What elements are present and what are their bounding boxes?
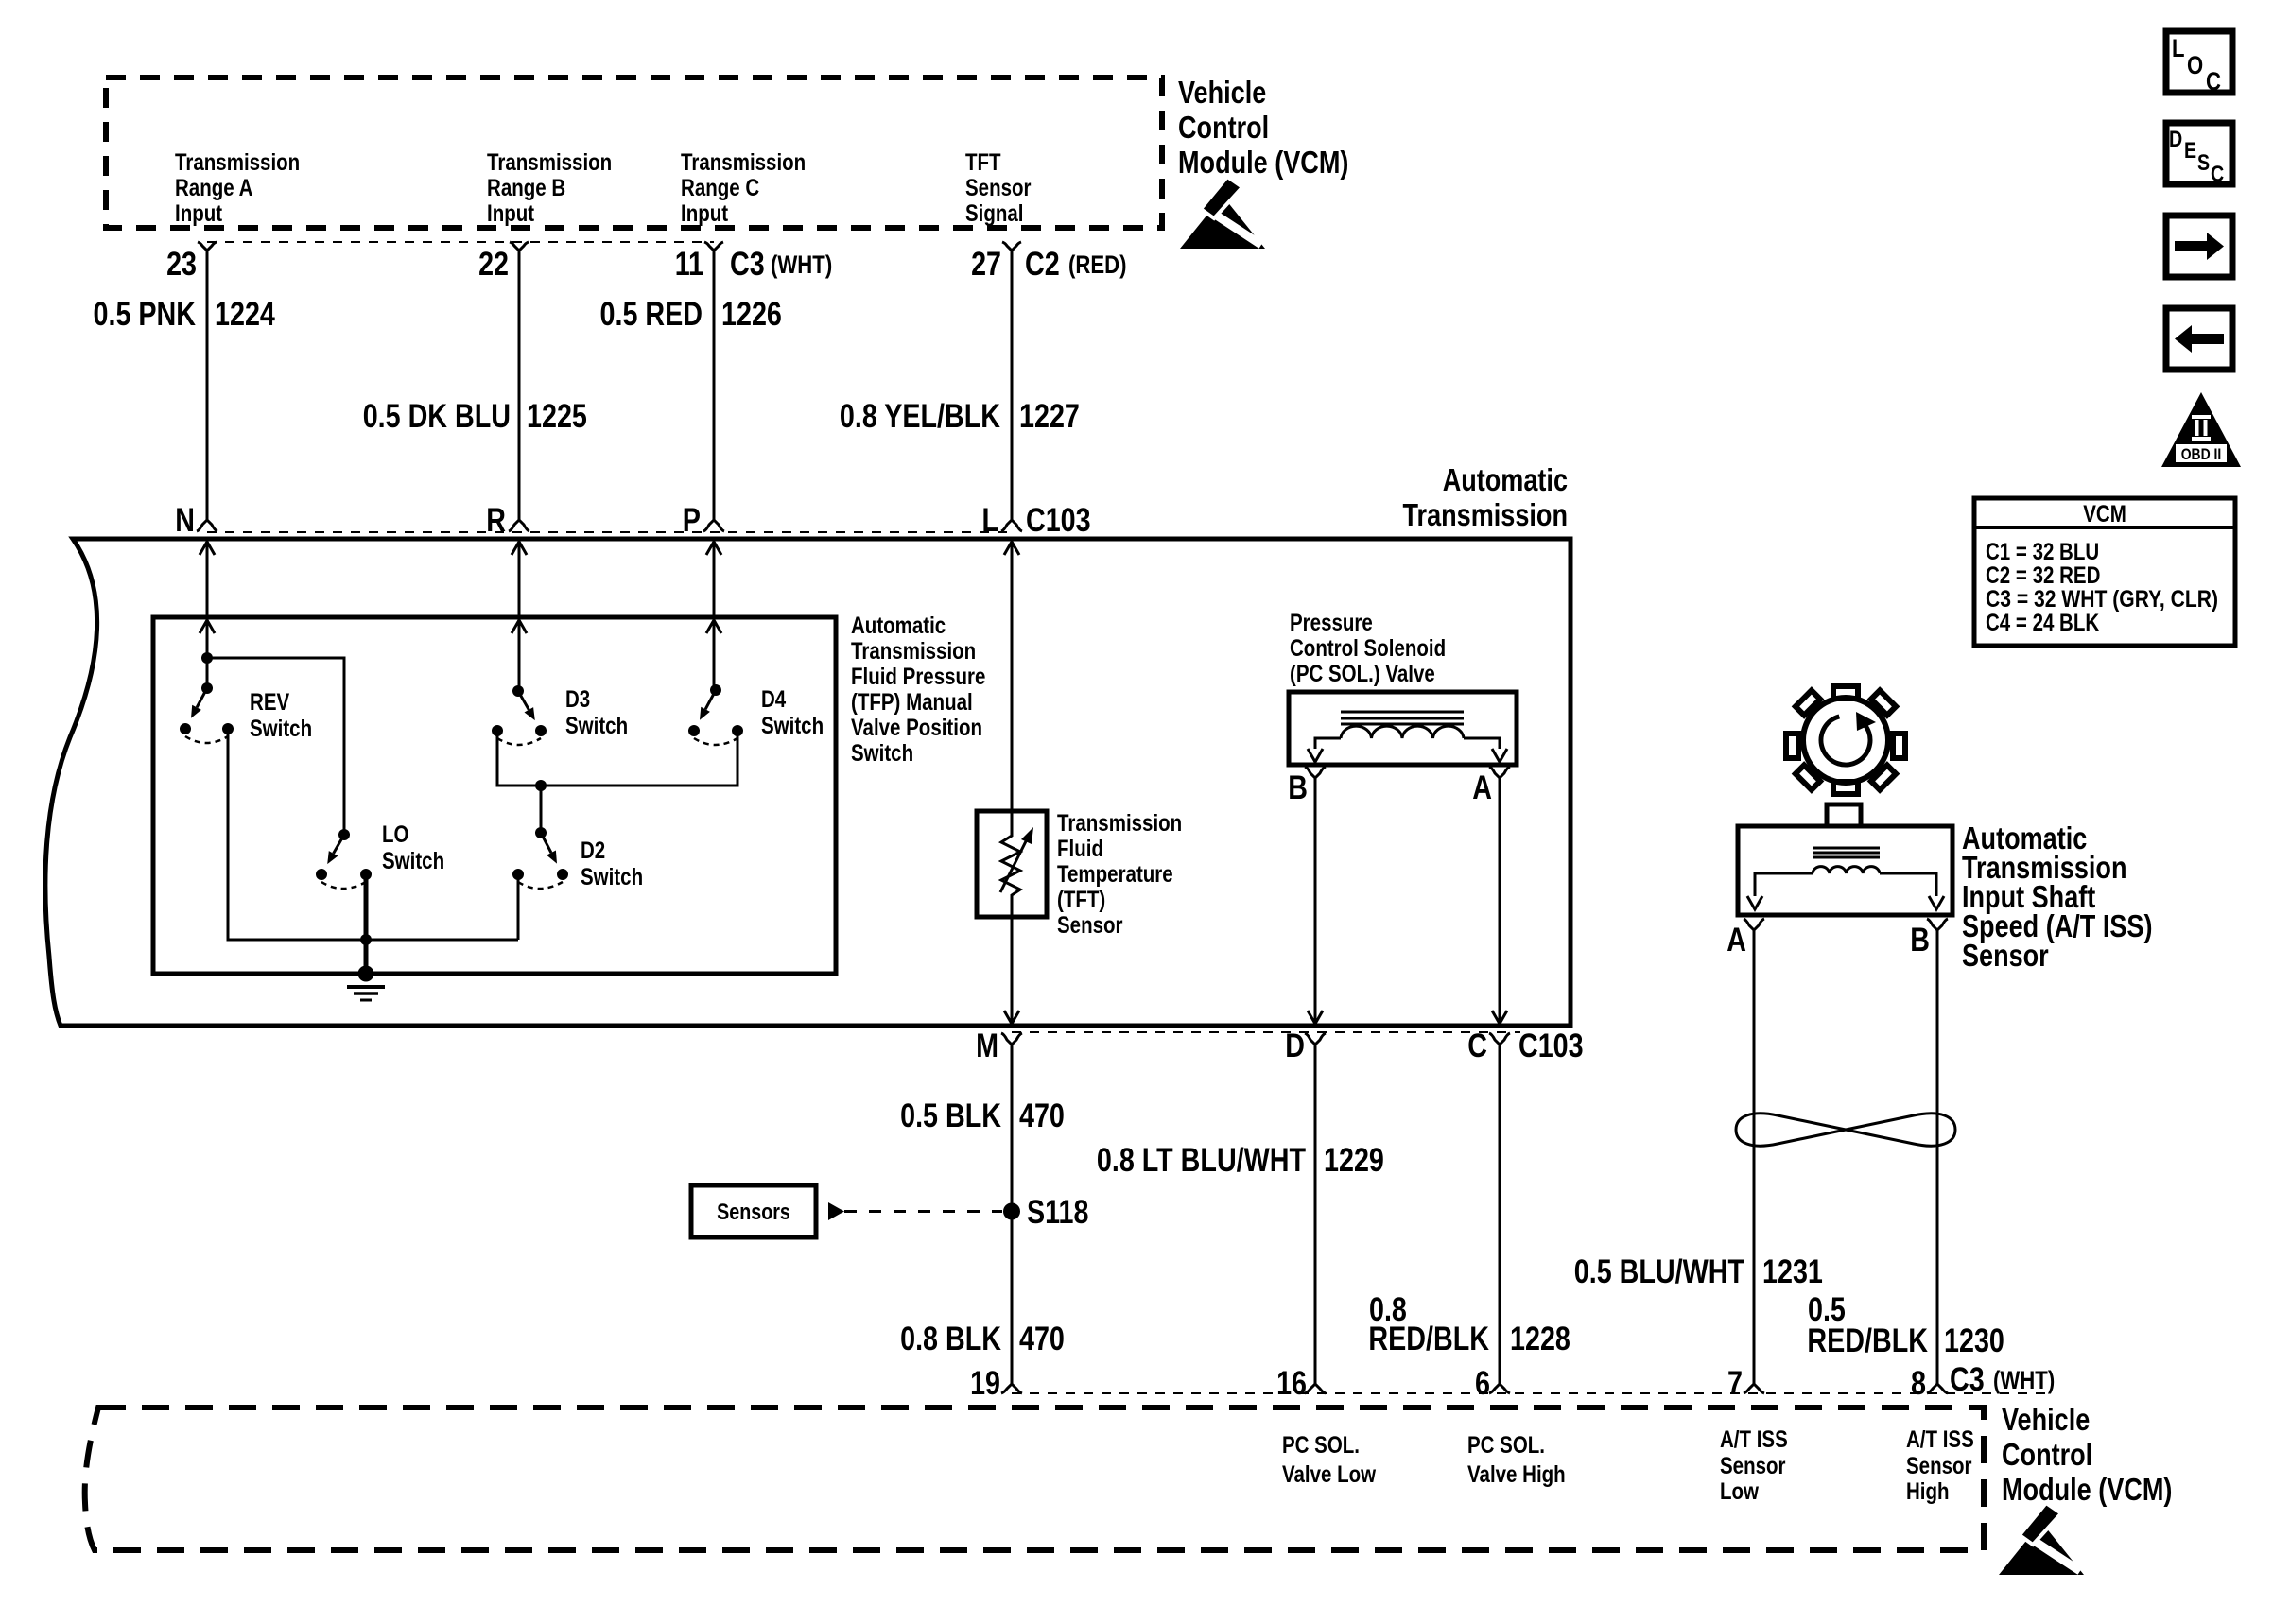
- svg-text:High: High: [1906, 1478, 1950, 1505]
- svg-text:Module (VCM): Module (VCM): [2002, 1472, 2172, 1507]
- svg-text:C2 = 32 RED: C2 = 32 RED: [1986, 562, 2100, 589]
- wire R arrow into transmission: [512, 542, 527, 555]
- svg-text:6: 6: [1475, 1365, 1490, 1402]
- ISS pin A fork: [1744, 919, 1764, 930]
- svg-text:1228: 1228: [1510, 1321, 1570, 1357]
- wire 1229 inside transmission: [1314, 778, 1317, 1024]
- svg-text:C3: C3: [1950, 1361, 1985, 1398]
- wire N arrow into transmission: [200, 542, 215, 555]
- svg-text:L: L: [2172, 34, 2185, 62]
- svg-text:1226: 1226: [721, 296, 782, 333]
- svg-text:Signal: Signal: [965, 200, 1024, 227]
- svg-text:Control: Control: [1178, 110, 1269, 145]
- svg-text:A: A: [1472, 769, 1492, 806]
- wire 1225 upper segment: [518, 251, 521, 520]
- svg-text:Sensors: Sensors: [717, 1200, 790, 1225]
- svg-text:(TFP) Manual: (TFP) Manual: [851, 689, 973, 716]
- pin label Transmission Range C Input: [681, 149, 806, 227]
- ISS mounting tab: [1827, 804, 1861, 826]
- wire bus up to D2 left contact: [517, 874, 520, 940]
- bottom connector dashed tie line: [1012, 1392, 2045, 1394]
- ESD symbol bottom: [1999, 1503, 2084, 1575]
- PC solenoid leads with arrows: [1315, 738, 1341, 749]
- svg-text:C2: C2: [1025, 246, 1060, 283]
- svg-text:1225: 1225: [527, 398, 587, 435]
- junction dot D2 feed: [535, 780, 547, 791]
- svg-text:Low: Low: [1720, 1478, 1759, 1505]
- svg-text:PC SOL.: PC SOL.: [1282, 1432, 1360, 1459]
- dashed leader to S118: [844, 1210, 1002, 1213]
- svg-text:Transmission: Transmission: [851, 638, 976, 665]
- label TFT sensor: [1057, 810, 1182, 939]
- svg-text:Switch: Switch: [250, 716, 312, 742]
- wire 1227 upper segment: [1011, 251, 1014, 520]
- svg-text:Transmission: Transmission: [1057, 810, 1182, 837]
- svg-text:1224: 1224: [215, 296, 275, 333]
- pin label Transmission Range B Input: [487, 149, 612, 227]
- svg-text:Transmission: Transmission: [487, 149, 612, 176]
- svg-text:7: 7: [1727, 1365, 1743, 1402]
- gear icon above ISS sensor: [1786, 686, 1905, 794]
- svg-text:A: A: [1726, 922, 1746, 959]
- node L fork: [1001, 520, 1022, 531]
- svg-text:Input: Input: [175, 200, 223, 227]
- svg-text:E: E: [2184, 138, 2196, 164]
- svg-text:TFT: TFT: [965, 149, 1001, 176]
- svg-text:REV: REV: [250, 689, 289, 716]
- svg-text:Range A: Range A: [175, 175, 252, 201]
- VCM module bottom dashed box: [85, 1408, 1984, 1550]
- wire LO to ground: [364, 874, 369, 974]
- A/T ISS sensor B1 box: [1738, 826, 1952, 915]
- TFT variable arrow: [1000, 841, 1026, 892]
- svg-text:0.8 BLK: 0.8 BLK: [900, 1321, 1001, 1357]
- node M fork: [1001, 1033, 1022, 1045]
- pin 8 fork: [1927, 1384, 1948, 1393]
- svg-text:Range B: Range B: [487, 175, 565, 201]
- wire 1228 inside transmission: [1499, 778, 1501, 1024]
- junction node on N wire: [201, 652, 213, 664]
- svg-text:Switch: Switch: [565, 713, 628, 739]
- PC solenoid core bars: [1341, 711, 1464, 714]
- wire 1228 lower segment: [1499, 1045, 1501, 1384]
- svg-text:A/T ISS: A/T ISS: [1720, 1426, 1788, 1453]
- svg-text:R: R: [486, 502, 506, 539]
- node C fork: [1489, 1033, 1510, 1045]
- svg-text:Sensor: Sensor: [1720, 1453, 1786, 1479]
- svg-text:(WHT): (WHT): [771, 251, 832, 279]
- svg-text:C3: C3: [730, 246, 765, 283]
- ISS pin B fork: [1927, 919, 1948, 930]
- pin B fork: [1305, 767, 1326, 778]
- wire 470 upper segment: [1011, 1045, 1014, 1384]
- connector C2 pin 27 fork: [1002, 242, 1021, 251]
- node D fork: [1305, 1033, 1326, 1045]
- connector C3 pin 11 fork: [704, 242, 723, 251]
- svg-text:Range C: Range C: [681, 175, 759, 201]
- svg-text:Sensor: Sensor: [1962, 938, 2049, 973]
- svg-text:C: C: [2211, 162, 2224, 187]
- svg-text:C103: C103: [1026, 502, 1091, 539]
- svg-text:D3: D3: [565, 686, 590, 713]
- top connector dashed tie line: [207, 241, 714, 243]
- svg-text:Automatic: Automatic: [851, 613, 946, 639]
- svg-text:Sensor: Sensor: [1057, 912, 1123, 939]
- svg-text:RED/BLK: RED/BLK: [1807, 1322, 1928, 1359]
- splice node S118: [1003, 1203, 1020, 1220]
- svg-text:P: P: [683, 502, 701, 539]
- D4 switch Q-D4: [688, 684, 743, 745]
- ISS core bars: [1813, 847, 1880, 850]
- svg-text:Switch: Switch: [581, 864, 643, 890]
- svg-text:N: N: [175, 502, 195, 539]
- svg-text:C4 = 24 BLK: C4 = 24 BLK: [1986, 610, 2099, 636]
- svg-text:470: 470: [1019, 1097, 1065, 1134]
- svg-text:A/T ISS: A/T ISS: [1906, 1426, 1974, 1453]
- svg-text:Temperature: Temperature: [1057, 861, 1173, 888]
- connector pin 22 fork: [510, 242, 529, 251]
- twisted pair symbol: [1736, 1114, 1955, 1146]
- icon LOC box: [2166, 31, 2232, 95]
- svg-text:Transmission: Transmission: [681, 149, 806, 176]
- svg-text:Module (VCM): Module (VCM): [1178, 145, 1348, 180]
- svg-text:Vehicle: Vehicle: [2002, 1402, 2090, 1437]
- svg-text:B: B: [1288, 769, 1308, 806]
- wire from N junction to LO switch: [207, 658, 344, 835]
- wire REV to D2 bus: [228, 729, 518, 940]
- pin A fork: [1489, 767, 1510, 778]
- svg-text:Sensor: Sensor: [1906, 1453, 1972, 1479]
- svg-text:O: O: [2187, 51, 2203, 79]
- svg-text:Input: Input: [681, 200, 729, 227]
- svg-text:Valve High: Valve High: [1467, 1461, 1566, 1488]
- icon OBD II triangle: [2161, 392, 2241, 467]
- svg-text:C1 = 32 BLU: C1 = 32 BLU: [1986, 539, 2099, 565]
- junction dot LO ground crossing: [360, 934, 372, 945]
- wire TFT to M with exit arrow: [1011, 917, 1014, 1024]
- svg-text:19: 19: [970, 1365, 1000, 1402]
- wire P arrow into TFP box: [706, 620, 721, 633]
- svg-text:0.5 DK BLU: 0.5 DK BLU: [363, 398, 511, 435]
- D2 switch Q-D2: [512, 827, 568, 889]
- svg-text:S: S: [2197, 150, 2210, 176]
- wire P arrow into transmission: [706, 542, 721, 555]
- wire junction to D2 pivot: [540, 786, 543, 833]
- svg-text:11: 11: [675, 246, 703, 283]
- label Vehicle Control Module (VCM) top: [1178, 75, 1348, 180]
- label A/T ISS sensor: [1962, 821, 2153, 973]
- svg-text:470: 470: [1019, 1321, 1065, 1357]
- svg-text:Pressure: Pressure: [1290, 610, 1373, 636]
- icon back arrow box: [2166, 308, 2232, 370]
- svg-text:0.5 RED: 0.5 RED: [600, 296, 703, 333]
- svg-text:C103: C103: [1518, 1028, 1584, 1064]
- svg-text:LO: LO: [382, 821, 409, 848]
- ESD symbol top: [1180, 177, 1265, 249]
- ISS leads with arrows: [1755, 873, 1813, 896]
- label TFP switch: [851, 613, 985, 767]
- svg-text:(RED): (RED): [1068, 251, 1127, 279]
- VCM connector legend table: [1974, 498, 2235, 646]
- svg-text:0.8 YEL/BLK: 0.8 YEL/BLK: [840, 398, 1000, 435]
- svg-text:(WHT): (WHT): [1993, 1366, 2055, 1394]
- connector C103 dashed line top: [207, 531, 1012, 533]
- wire N arrow into TFP box: [200, 620, 215, 633]
- node P fork: [703, 520, 724, 531]
- svg-text:D2: D2: [581, 838, 605, 864]
- TFP manual valve position switch box: [153, 617, 836, 974]
- wire R arrow into TFP box: [512, 620, 527, 633]
- svg-text:16: 16: [1276, 1365, 1307, 1402]
- LO switch Q-LO: [316, 829, 372, 889]
- connector C2 pin 23 fork: [198, 242, 217, 251]
- node R fork: [509, 520, 529, 531]
- svg-text:Valve Low: Valve Low: [1282, 1461, 1377, 1488]
- svg-text:S118: S118: [1027, 1194, 1088, 1231]
- svg-text:Input: Input: [487, 200, 535, 227]
- svg-text:0.5 PNK: 0.5 PNK: [94, 296, 197, 333]
- svg-text:B: B: [1910, 922, 1930, 959]
- wire 1230 A/T ISS high: [1936, 930, 1939, 1384]
- pin 19 fork: [1001, 1384, 1022, 1393]
- wire D3 left contact to bus: [497, 731, 737, 786]
- wire 1226 upper segment: [713, 251, 716, 520]
- svg-text:0.5 BLU/WHT: 0.5 BLU/WHT: [1574, 1253, 1744, 1290]
- ground G1: [347, 966, 385, 1001]
- svg-text:27: 27: [971, 246, 1001, 283]
- svg-text:VCM: VCM: [2083, 501, 2126, 527]
- svg-text:0.5 BLK: 0.5 BLK: [900, 1097, 1001, 1134]
- icon forward arrow box: [2166, 216, 2232, 277]
- pin 7 fork: [1744, 1384, 1764, 1393]
- pin label TFT Sensor Signal: [965, 149, 1032, 227]
- svg-text:PC SOL.: PC SOL.: [1467, 1432, 1545, 1459]
- label Vehicle Control Module (VCM) bottom: [2002, 1402, 2172, 1507]
- icon DESC box: [2166, 123, 2232, 187]
- wire 1229 lower segment: [1314, 1045, 1317, 1384]
- wire L arrow into transmission: [1004, 542, 1019, 555]
- svg-text:Valve Position: Valve Position: [851, 715, 982, 741]
- svg-text:22: 22: [478, 246, 509, 283]
- svg-text:Control: Control: [2002, 1437, 2092, 1472]
- REV switch Q-REV: [180, 682, 234, 743]
- PC solenoid coil: [1341, 726, 1464, 738]
- svg-text:Vehicle: Vehicle: [1178, 75, 1266, 110]
- svg-text:C: C: [1467, 1028, 1487, 1064]
- pin label Transmission Range A Input: [175, 149, 300, 227]
- svg-text:D: D: [2169, 127, 2182, 152]
- VCM module U1 top dashed box: [106, 78, 1162, 228]
- PC solenoid valve box: [1289, 692, 1517, 765]
- svg-text:Switch: Switch: [382, 848, 444, 874]
- wire 1224 upper segment: [206, 251, 209, 520]
- svg-text:M: M: [976, 1028, 998, 1064]
- PC solenoid valve L1 label: [1290, 610, 1446, 687]
- node N fork: [197, 520, 217, 531]
- ISS coil: [1813, 867, 1880, 873]
- D3 switch Q-D3: [492, 685, 547, 745]
- svg-text:Transmission: Transmission: [175, 149, 300, 176]
- svg-text:Transmission: Transmission: [1403, 497, 1569, 532]
- Sensors reference box: [691, 1185, 816, 1237]
- svg-text:1227: 1227: [1019, 398, 1080, 435]
- svg-text:D: D: [1285, 1028, 1305, 1064]
- svg-text:Switch: Switch: [761, 713, 824, 739]
- pin 16 fork: [1305, 1384, 1326, 1393]
- TFT sensor RT1 box: [977, 811, 1047, 917]
- pin 6 fork: [1489, 1384, 1510, 1393]
- svg-text:Sensor: Sensor: [965, 175, 1032, 201]
- Sensors arrow: [828, 1202, 844, 1220]
- svg-text:8: 8: [1911, 1365, 1926, 1402]
- svg-text:(PC SOL.) Valve: (PC SOL.) Valve: [1290, 661, 1435, 687]
- wire 1231 A/T ISS low: [1753, 930, 1756, 1384]
- svg-text:1229: 1229: [1324, 1142, 1384, 1179]
- TFT thermistor zigzag: [1001, 811, 1020, 917]
- automatic transmission enclosure box: [45, 539, 1570, 1026]
- svg-text:0.8 LT BLU/WHT: 0.8 LT BLU/WHT: [1097, 1142, 1306, 1179]
- svg-text:Control Solenoid: Control Solenoid: [1290, 635, 1446, 662]
- svg-text:C3 = 32 WHT (GRY, CLR): C3 = 32 WHT (GRY, CLR): [1986, 586, 2218, 613]
- svg-text:Fluid: Fluid: [1057, 836, 1103, 862]
- svg-text:RED/BLK: RED/BLK: [1368, 1321, 1489, 1357]
- svg-text:23: 23: [166, 246, 197, 283]
- svg-text:C: C: [2206, 67, 2221, 95]
- svg-text:Fluid Pressure: Fluid Pressure: [851, 664, 985, 690]
- svg-text:D4: D4: [761, 686, 786, 713]
- svg-text:Automatic: Automatic: [1443, 462, 1568, 497]
- svg-text:(TFT): (TFT): [1057, 887, 1105, 913]
- svg-text:Switch: Switch: [851, 740, 913, 767]
- svg-text:L: L: [982, 502, 999, 539]
- svg-text:1231: 1231: [1762, 1253, 1823, 1290]
- svg-text:OBD II: OBD II: [2181, 445, 2222, 463]
- svg-text:1230: 1230: [1944, 1322, 2004, 1359]
- connector C103 bottom dashed line: [1012, 1031, 1520, 1033]
